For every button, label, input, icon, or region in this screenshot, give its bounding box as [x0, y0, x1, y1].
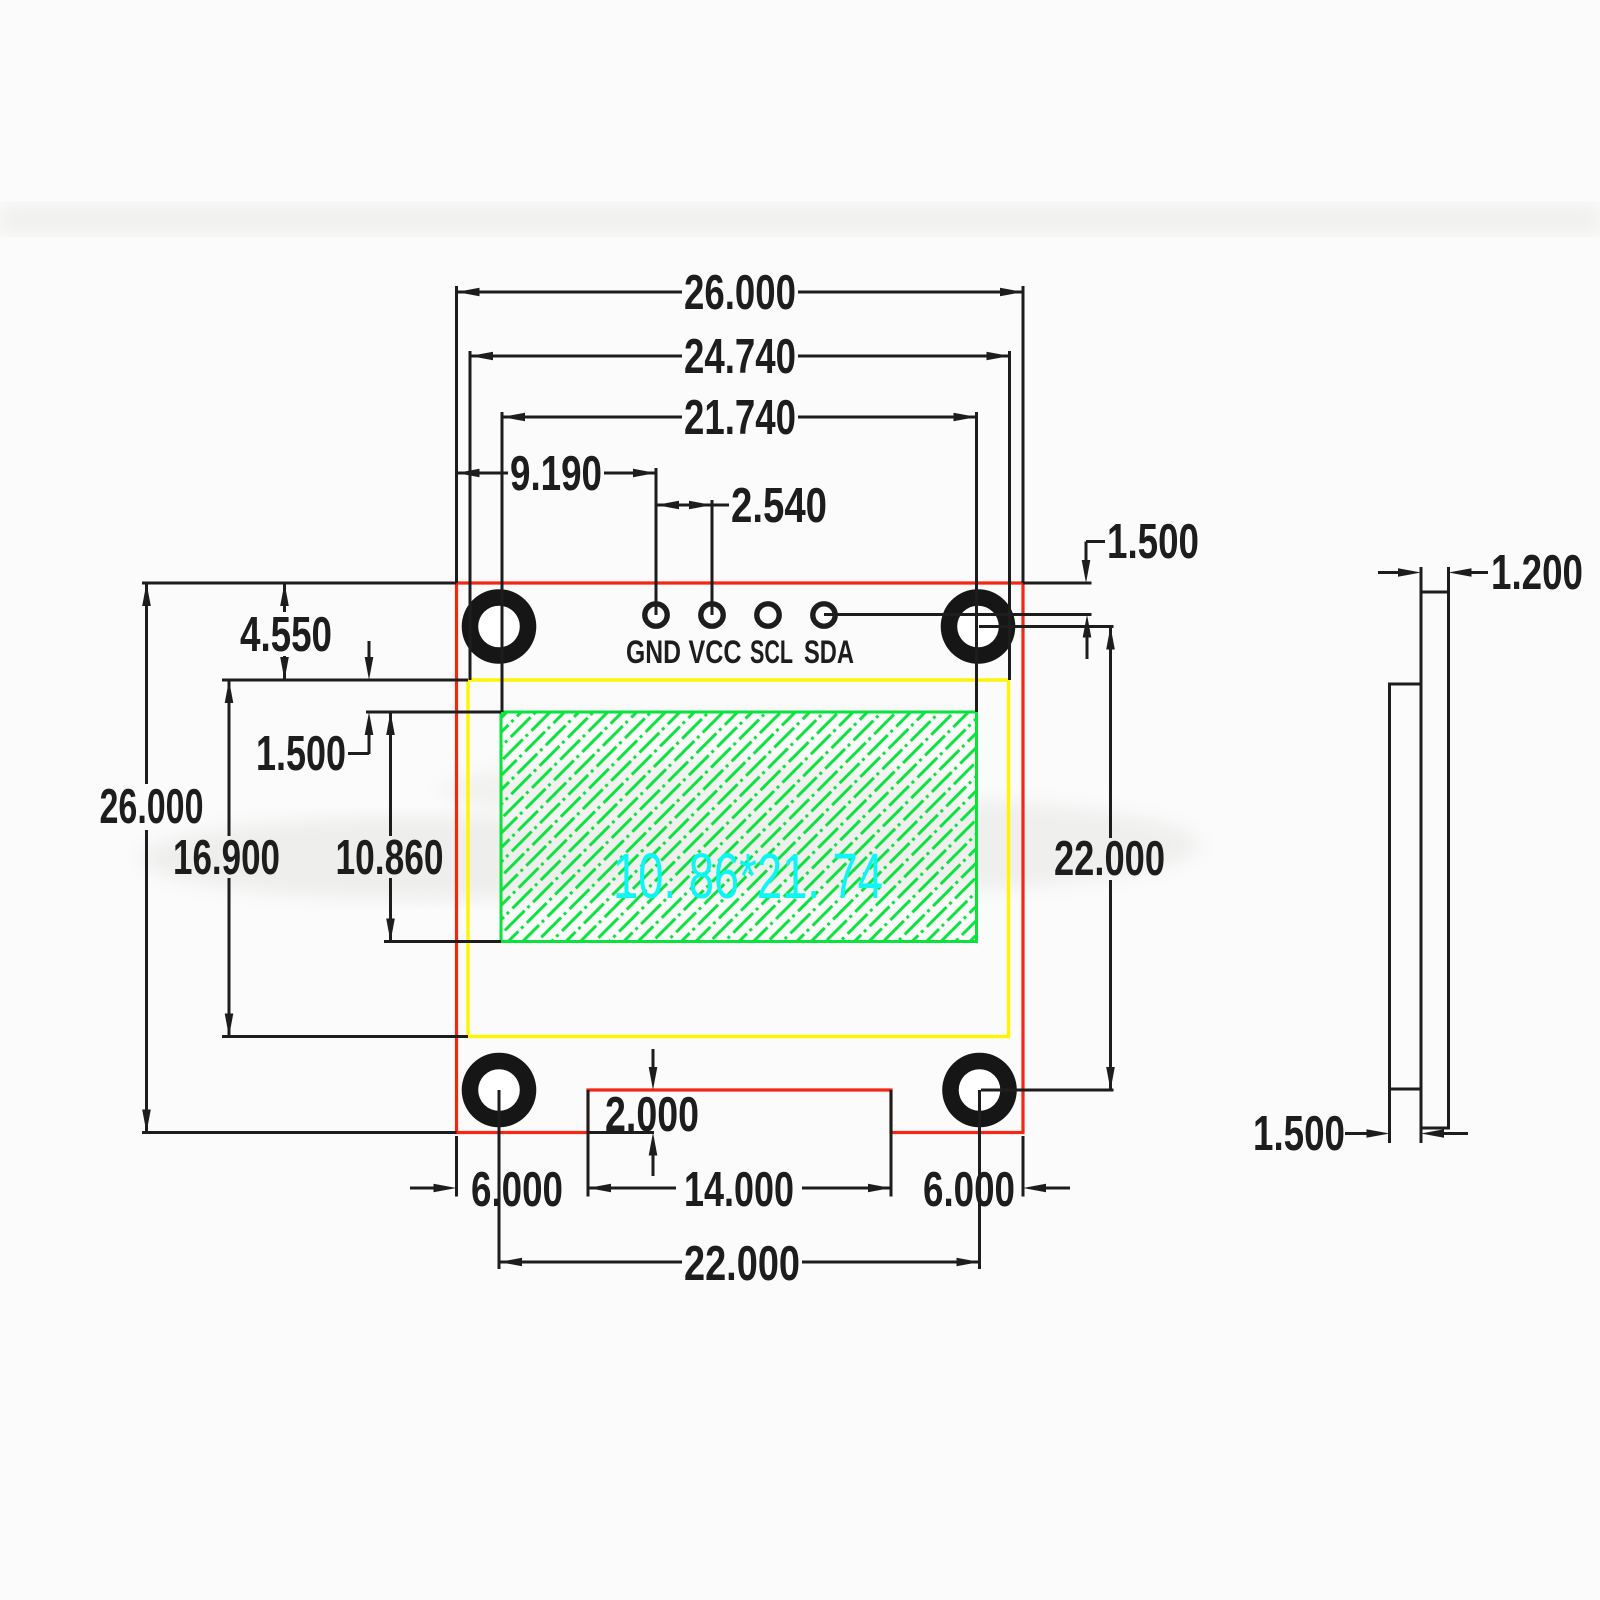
svg-text:2.000: 2.000	[605, 1088, 699, 1142]
dimension 2.000 notch depth	[588, 1049, 699, 1176]
mounting hole bottom-right	[942, 1053, 1017, 1128]
dimension 1.500 glass to active area (left)	[256, 641, 501, 781]
svg-text:26.000: 26.000	[684, 266, 796, 320]
svg-text:16.900: 16.900	[173, 831, 280, 885]
svg-text:26.000: 26.000	[100, 780, 204, 834]
svg-text:24.740: 24.740	[684, 330, 796, 384]
svg-text:6.000: 6.000	[471, 1163, 563, 1217]
side view PCB profile	[1421, 592, 1449, 1128]
dimension 22.000 hole span vertical (right)	[979, 627, 1165, 1091]
svg-text:1.500: 1.500	[1253, 1107, 1345, 1161]
dimension 22.000 hole span (bottom)	[499, 1090, 980, 1291]
dimension 24.740 glass width	[470, 330, 1010, 680]
svg-text:1.200: 1.200	[1491, 546, 1583, 600]
pin hole SCL	[757, 604, 779, 626]
svg-text:1.500: 1.500	[256, 727, 346, 781]
svg-text:VCC: VCC	[689, 634, 742, 670]
mounting hole bottom-left	[462, 1053, 537, 1128]
dimension 9.190 edge to GND pin	[457, 447, 657, 615]
active display area (green hatched)	[501, 712, 977, 942]
svg-text:6.000: 6.000	[923, 1163, 1015, 1217]
display glass outline (yellow)	[468, 680, 1009, 1037]
svg-text:1.500: 1.500	[1107, 515, 1199, 569]
dimension 26.000 board width (top)	[457, 266, 1024, 583]
svg-text:SDA: SDA	[804, 634, 854, 670]
svg-text:22.000: 22.000	[684, 1237, 800, 1291]
svg-text:9.190: 9.190	[510, 447, 602, 501]
dimension 1.500 edge to pin row (top right)	[824, 515, 1199, 659]
svg-text:14.000: 14.000	[684, 1163, 794, 1217]
notch edge extension lines	[587, 1090, 590, 1197]
svg-text:SCL: SCL	[750, 634, 793, 670]
svg-text:2.540: 2.540	[731, 479, 827, 533]
dimension 16.900 glass height	[173, 680, 468, 1037]
svg-text:GND: GND	[626, 634, 681, 670]
dimension 21.740 hole span / active width	[502, 391, 977, 712]
dimension 10.860 active area height	[336, 712, 502, 942]
pin hole SDA	[813, 604, 835, 626]
mounting hole top-right	[941, 589, 1016, 664]
side view display glass profile	[1390, 684, 1422, 1089]
dimension 2.540 pin pitch	[656, 479, 827, 615]
svg-text:22.000: 22.000	[1054, 832, 1165, 886]
pin hole VCC	[701, 604, 723, 626]
svg-text:21.740: 21.740	[684, 391, 796, 445]
PCB board outline (red, with bottom notch)	[457, 583, 1024, 1133]
faint gray smudge mid-left	[140, 816, 720, 900]
pin hole GND	[645, 604, 667, 626]
svg-text:10.860: 10.860	[336, 831, 444, 885]
faint gray band top	[0, 204, 1600, 234]
dimension 1.200 PCB thickness (side view)	[1378, 546, 1583, 600]
svg-text:4.550: 4.550	[240, 608, 332, 662]
dimension 26.000 board height (left)	[100, 583, 457, 1133]
dimension 14.000 notch width	[588, 1163, 891, 1217]
dimension 1.500 glass thickness (side view)	[1253, 1089, 1468, 1161]
dimension 4.550 edge to glass	[222, 583, 468, 680]
dimension 6.000 notch to edge (bottom right)	[923, 1136, 1070, 1217]
svg-text:10. 86*21. 74: 10. 86*21. 74	[613, 840, 883, 912]
faint gray smudge above green area	[440, 760, 960, 820]
dimension 6.000 edge to notch (bottom left)	[410, 1136, 563, 1217]
faint gray smudge mid-center	[540, 797, 1200, 893]
mounting hole top-left	[462, 589, 537, 664]
